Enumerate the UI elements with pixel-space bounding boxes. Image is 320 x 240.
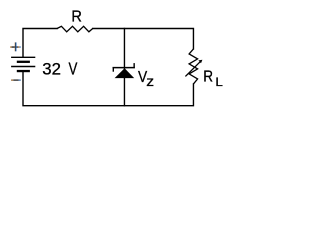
svg-text:R: R	[71, 8, 82, 26]
svg-text:L: L	[215, 76, 222, 89]
svg-text:32: 32	[42, 59, 61, 78]
svg-text:R: R	[203, 68, 213, 85]
svg-text:V: V	[69, 60, 79, 79]
svg-text:z: z	[146, 74, 154, 90]
